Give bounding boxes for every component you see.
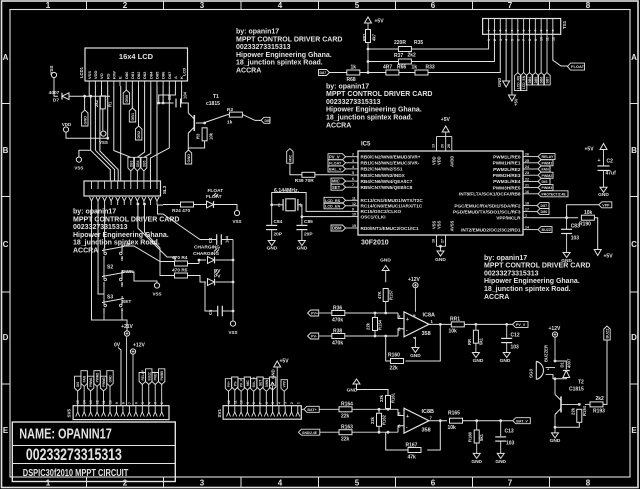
svg-text:D82: D82 [136,71,141,79]
svg-text:C13: C13 [505,429,514,435]
svg-text:GND/2.4E: GND/2.4E [302,431,318,435]
svg-text:DB4: DB4 [528,77,532,84]
svg-text:DIS: DIS [542,180,549,184]
svg-text:UP: UP [124,242,131,248]
wire to R35 [368,48,398,50]
net flag FAN [538,166,550,172]
svg-text:T1: T1 [213,94,219,100]
net flag BAL_V at RB2 [328,166,346,172]
svg-text:4: 4 [147,402,151,404]
wire C4 left diagonal [158,205,217,240]
svg-text:RC13/CN1/EMUD1/WTX/T2C: RC13/CN1/EMUD1/WTX/T2C [361,198,424,203]
svg-text:2: 2 [160,402,164,404]
svg-text:SET: SET [259,380,263,386]
ground below C12 [506,343,508,353]
wire flag to R39 [290,163,302,175]
svg-text:ACCRA: ACCRA [484,294,509,301]
svg-text:PV+: PV+ [227,381,231,387]
resistor R166 5k1 vertical [476,421,478,430]
svg-text:7: 7 [522,39,526,41]
wire TS1 pin3 to R33 [428,34,500,72]
svg-text:PWM3: PWM3 [102,377,106,387]
svg-text:by: opanin17: by: opanin17 [73,209,116,216]
svg-text:RB0/CN2/WN0/EMUD3/VR+: RB0/CN2/WN0/EMUD3/VR+ [361,155,421,160]
svg-text:B: B [631,146,637,155]
svg-text:1: 1 [46,479,51,488]
wire LED1 to rail [216,259,234,261]
svg-text:ACCRA: ACCRA [326,122,351,129]
svg-text:R81: R81 [362,33,367,41]
wire R161 to node C [387,408,389,411]
svg-text:22k: 22k [341,437,350,443]
svg-text:BUZZ: BUZZ [542,228,552,232]
svg-text:C5: C5 [208,309,213,315]
svg-text:PWM1H/RE1: PWM1H/RE1 [493,161,521,166]
svg-text:20: 20 [441,144,445,148]
wire VDD down-right [66,132,108,138]
svg-text:5: 5 [271,402,275,404]
svg-text:R161: R161 [391,392,396,403]
wire bundle diagonal 2 [95,150,114,181]
svg-text:R160: R160 [388,353,400,359]
svg-text:C2: C2 [607,159,614,165]
svg-text:VPP/MCLR: VPP/MCLR [496,216,521,221]
svg-text:5: 5 [352,171,354,175]
frame row ticks and letters [2,103,11,105]
net flag SET at RB5 [331,184,346,190]
svg-text:7: 7 [259,402,263,404]
svg-text:470 R4: 470 R4 [172,255,188,261]
svg-text:28: 28 [447,144,451,148]
svg-text:GND: GND [435,257,446,263]
svg-text:25: 25 [525,159,529,163]
wire D87 flag to R68 [330,72,348,74]
svg-text:DIS: DIS [76,382,80,387]
wire R190 right up to +5V [594,218,597,249]
svg-text:SL3: SL3 [162,185,167,194]
wire R164 to node C [352,408,398,410]
svg-text:+5V: +5V [604,254,614,260]
svg-text:358: 358 [422,331,431,337]
svg-text:GND: GND [109,375,113,383]
wire +12V down to buzzer node [554,337,556,361]
wire BAT+ to R164 [319,408,339,410]
svg-text:BUZZ: BUZZ [606,328,610,339]
net flag BAT+ input [304,406,319,412]
svg-text:8: 8 [121,402,125,404]
svg-text:R/W: R/W [111,71,116,79]
svg-text:18: 18 [525,202,529,206]
svg-text:RB3/CN5/WN3/INDX: RB3/CN5/WN3/INDX [361,173,406,178]
wire R2 to net flag [243,115,261,121]
SV1 pin arrows [227,412,231,417]
net flag BAT_V output [513,418,531,424]
net flag PWM1 [538,160,553,166]
svg-text:B: B [3,146,9,155]
svg-text:R35: R35 [414,40,423,46]
svg-text:14: 14 [525,226,529,230]
net flag MIC at RB4 [331,178,346,184]
wire LCD D86 down [162,86,164,103]
svg-text:C84: C84 [274,219,283,225]
svg-text:LCD_RS: LCD_RS [325,199,341,203]
svg-text:2: 2 [123,479,128,488]
svg-text:RC14/CN0/EMUC1/ARX/T1C: RC14/CN0/EMUC1/ARX/T1C [361,204,423,209]
svg-text:6: 6 [265,402,269,404]
wire R3 bottom to emitter flag [188,141,204,148]
ground below C2 [603,170,605,187]
svg-text:00233273315313: 00233273315313 [484,270,539,277]
wire T2 emitter to GND [554,418,556,427]
net flag PV_V at RB0 [328,154,346,160]
resistor R81 4k7 vertical [367,23,369,30]
svg-text:7: 7 [508,1,513,10]
wire node C to opamp + [398,409,404,415]
ground below R166 [476,443,478,453]
feedback wire to R167 [427,421,440,450]
wire SL3 pin2 down to switch S2 [98,205,104,294]
wire R194 bottom to emitter [555,422,579,427]
net flag PROTECT/2.4E [538,191,568,197]
svg-text:8: 8 [586,1,591,10]
wire crystal top loop to OSC2 [272,193,351,212]
svg-text:RELAY: RELAY [141,369,145,380]
svg-text:+: + [406,414,409,420]
svg-text:D83: D83 [142,71,147,79]
svg-text:Hipower Engineering Ghana.: Hipower Engineering Ghana. [73,232,169,239]
capacitor C84 20P [271,205,273,225]
wire LCD RS pin down [107,86,109,138]
svg-text:22k: 22k [571,407,576,415]
svg-text:16x4 LCD: 16x4 LCD [119,52,154,61]
svg-text:103: 103 [571,236,580,242]
svg-text:1: 1 [296,402,300,404]
svg-text:18_junction spintex Road.: 18_junction spintex Road. [326,115,413,122]
wire TS1 pin6 to flag LCD_RS [517,34,519,72]
svg-text:NAME: OPANIN17: NAME: OPANIN17 [19,426,112,443]
svg-text:D86: D86 [541,210,548,214]
wire crystal left [272,204,283,206]
svg-text:15: 15 [76,400,80,404]
svg-text:13: 13 [89,400,93,404]
svg-text:+12V: +12V [408,277,420,283]
net flag DIS [538,178,550,184]
svg-text:FLOAT: FLOAT [571,64,585,69]
svg-text:26: 26 [525,153,529,157]
net flag DB3 [128,157,134,171]
svg-text:10k: 10k [209,132,214,140]
svg-text:BAL_V: BAL_V [252,376,256,387]
svg-text:+12V: +12V [549,326,561,332]
svg-text:47K: 47K [377,291,382,299]
svg-text:10: 10 [540,37,544,41]
svg-text:30F2010: 30F2010 [361,240,389,247]
svg-text:4007: 4007 [567,358,572,368]
svg-text:FAN: FAN [542,168,550,172]
wire +12V down to SV5 [132,354,134,406]
svg-text:R166: R166 [468,431,473,442]
svg-text:SV5: SV5 [67,408,72,417]
svg-text:11: 11 [102,400,106,404]
svg-text:15: 15 [352,224,356,228]
net flag DB4 [134,157,140,171]
op-amp IC8A 358 [404,312,429,337]
LCD pin stubs [88,81,90,86]
svg-text:VPP: VPP [283,380,287,387]
svg-text:RR: RR [467,339,472,345]
svg-text:GND: GND [297,246,308,252]
svg-text:22k: 22k [390,366,399,372]
svg-text:GND: GND [471,459,482,465]
svg-text:5: 5 [355,479,360,488]
capacitor C12 103 [506,324,508,338]
wire R157 to node A [385,302,387,314]
connector TS1 [483,19,561,35]
frame column ticks and numbers [86,2,88,10]
svg-text:BAT+: BAT+ [307,408,316,412]
svg-text:SG3: SG3 [529,368,534,378]
svg-text:14: 14 [83,400,87,404]
svg-text:VDD: VDD [62,122,72,127]
wire TS1 pin12 to FLOAT flag [553,34,568,66]
svg-text:11: 11 [352,196,356,200]
wire LCD A pin down [159,86,176,103]
svg-text:VDD: VDD [437,156,442,165]
net flag below diode junction [84,96,86,110]
svg-text:DB1: DB1 [131,113,135,121]
svg-text:20P: 20P [304,232,313,238]
svg-text:GND: GND [380,258,391,264]
wire node A to opamp + [398,313,404,319]
svg-text:PWM2H/RE3: PWM2H/RE3 [493,173,521,178]
svg-text:19: 19 [432,239,436,243]
svg-text:6: 6 [352,177,354,181]
net flag GND at T1 emitter [185,150,191,164]
svg-text:3: 3 [200,479,205,488]
wire R66 to R33 [399,72,415,74]
svg-text:by: opanin17: by: opanin17 [484,255,527,262]
wire crystal right to OSC1 [298,205,351,217]
net flag RELAY [538,154,555,160]
svg-text:DSPIC30f2010 MPPT CIRCUIT: DSPIC30f2010 MPPT CIRCUIT [23,468,129,479]
svg-text:BUZZER: BUZZER [544,345,549,362]
wire VPP flag [567,205,599,218]
svg-text:12: 12 [227,400,231,404]
svg-text:103: 103 [511,345,520,351]
wire C3 to T1 collector [181,103,189,109]
capacitor C13 103 [500,421,502,437]
svg-text:4007: 4007 [49,90,60,96]
svg-text:DWN: DWN [265,379,269,387]
svg-text:24: 24 [525,165,529,169]
svg-text:+5V: +5V [280,359,290,365]
svg-text:VSS: VSS [232,219,241,224]
svg-text:6: 6 [516,39,520,41]
svg-text:PWM3H/RE5: PWM3H/RE5 [493,185,521,190]
svg-text:OSC1/CLKI: OSC1/CLKI [361,214,386,219]
svg-text:00233273315313: 00233273315313 [26,446,122,464]
svg-text:D: D [631,333,637,342]
net flag PV- input [308,333,319,339]
svg-text:7: 7 [352,183,354,187]
wire R165 to BAT_V flag [463,420,513,422]
svg-text:LCD1: LCD1 [79,66,84,78]
svg-text:DB6: DB6 [540,77,544,84]
svg-text:00233273315313: 00233273315313 [326,99,381,106]
svg-text:23: 23 [525,171,529,175]
svg-text:47k: 47k [408,455,417,461]
wire node B to opamp - [398,329,404,336]
svg-text:by: opanin17: by: opanin17 [236,29,279,36]
svg-text:18_junction spintex Road.: 18_junction spintex Road. [73,240,160,247]
svg-text:00233273315313: 00233273315313 [236,44,291,51]
wire bundle diagonal 3 [100,96,118,181]
wire diode to resistors [69,95,110,97]
svg-text:GND: GND [497,78,502,87]
connector SL3 [84,181,161,196]
svg-text:BAT_V: BAT_V [516,419,528,423]
svg-text:E: E [3,426,9,435]
switch ladder wires [103,261,105,274]
svg-text:VDD: VDD [93,70,98,79]
svg-text:12: 12 [96,400,100,404]
svg-text:D85: D85 [155,71,160,79]
svg-text:+21V: +21V [121,324,133,330]
svg-text:RB5/CN7/WN5/QEB/IC8: RB5/CN7/WN5/QEB/IC8 [361,185,413,190]
svg-text:VO: VO [99,73,104,79]
svg-text:4: 4 [278,479,283,488]
svg-text:R1: R1 [108,101,113,107]
wire PV- to R38 [319,335,332,337]
wire R39 to IC RB3 [315,174,351,176]
svg-text:D81: D81 [130,71,135,79]
net flag PWM2 [538,172,553,178]
resistor R24 470 [181,202,194,207]
svg-text:PV_V: PV_V [240,378,244,387]
net flag vertical BUZZ [604,326,610,340]
svg-text:GND: GND [270,369,275,378]
svg-text:220R: 220R [394,40,406,46]
svg-text:ACCRA: ACCRA [236,68,261,75]
svg-text:Hipower Engineering Ghana.: Hipower Engineering Ghana. [326,107,422,114]
svg-text:MPPT CONTROL DRIVER CARD: MPPT CONTROL DRIVER CARD [73,216,179,223]
svg-text:D1: D1 [560,361,565,367]
svg-text:FLOAT: FLOAT [329,161,342,165]
capacitor C83 103 [566,218,568,229]
svg-text:PV-: PV- [233,381,237,386]
wire VSS lower to bus [79,150,91,157]
svg-text:FAN: FAN [83,375,87,382]
svg-text:4: 4 [278,1,283,10]
svg-text:RD0/INT1/EMUC2/OC1/IC1: RD0/INT1/EMUC2/OC1/IC1 [361,226,419,231]
svg-text:PWM1: PWM1 [542,161,553,165]
wire R36 to node A [345,312,398,314]
svg-text:R194: R194 [582,405,587,416]
svg-text:IC8A: IC8A [423,313,436,319]
svg-text:MIC: MIC [288,154,292,161]
svg-text:BUZZ: BUZZ [147,372,151,381]
svg-text:2k2: 2k2 [408,53,417,59]
wire TS1 pin8 to flag DB4 [528,34,530,72]
wire SL3 pin1 down to bottom rail [92,205,128,331]
svg-text:R24 470: R24 470 [172,208,190,214]
wire LCD R/W pin down to flag DB3 [114,86,131,157]
svg-text:C1815: C1815 [569,387,584,393]
svg-text:D87: D87 [167,71,172,79]
wire C4 right to rail [221,239,233,241]
svg-text:LCD_EN: LCD_EN [522,75,526,89]
wire LED2 to rail [216,281,234,283]
svg-text:DB7: DB7 [546,77,550,84]
svg-text:R37: R37 [394,53,403,59]
svg-text:5: 5 [355,1,360,10]
ground below C13 [500,441,502,453]
svg-text:E: E [118,76,123,79]
svg-text:2k2: 2k2 [596,396,605,402]
svg-text:2: 2 [290,402,294,404]
svg-text:PWM3: PWM3 [542,186,553,190]
wire switch S1 right to R4 diagonal [122,246,175,262]
svg-text:AVDD: AVDD [450,156,455,167]
svg-text:+: + [406,317,409,323]
wire R81 down to junctions [367,43,369,73]
wire LCD D81 down with flag [131,86,133,108]
svg-text:R165: R165 [448,411,460,417]
svg-text:9: 9 [352,207,354,211]
svg-text:358: 358 [422,428,431,434]
wire GND to R161 [357,384,389,396]
LED charging 1 [208,257,215,264]
svg-text:PV_V: PV_V [329,154,340,159]
svg-text:DIS: DIS [265,119,271,123]
svg-text:18_junction spintex Road.: 18_junction spintex Road. [484,286,571,293]
svg-text:DB2: DB2 [137,131,141,139]
wire LCD D80 down with flag [125,86,127,90]
svg-text:3: 3 [200,1,205,10]
feedback wire to R160 [406,324,441,361]
wire RR1 to PV_V flag [464,323,512,325]
svg-text:MIC: MIC [332,179,340,184]
resistor R39 70R [302,172,315,177]
svg-text:GND: GND [500,358,511,364]
svg-text:8: 8 [252,402,256,404]
wire VSS to diode [54,78,58,97]
svg-text:IC5: IC5 [361,142,371,148]
wire buzzer node down to T2 collector [554,379,556,391]
terminal VSS mid-left [101,131,106,136]
svg-text:GND: GND [187,154,191,163]
svg-text:4: 4 [352,165,354,169]
svg-text:A: A [173,76,178,79]
wire LCD D83 down diagonal [137,86,144,157]
ground flag above R161 [353,379,360,384]
svg-text:8: 8 [413,314,417,316]
svg-text:ACCRA: ACCRA [73,248,98,255]
svg-text:3: 3 [121,296,123,300]
svg-text:VSS: VSS [74,166,83,171]
rail wire right to VSS [232,240,234,322]
svg-text:LCD: LCD [182,68,187,76]
svg-text:20P: 20P [274,232,283,238]
svg-text:1k: 1k [227,120,233,126]
net flag BUZZ [538,227,552,233]
wire MCLR to R190 [531,217,579,219]
ground below C85 [301,230,303,241]
SV5 pin arrows [76,412,80,417]
svg-text:22k: 22k [379,394,384,402]
svg-text:DB3: DB3 [129,160,133,167]
svg-text:MPPT CONTROL DRIVER CARD: MPPT CONTROL DRIVER CARD [236,36,342,43]
